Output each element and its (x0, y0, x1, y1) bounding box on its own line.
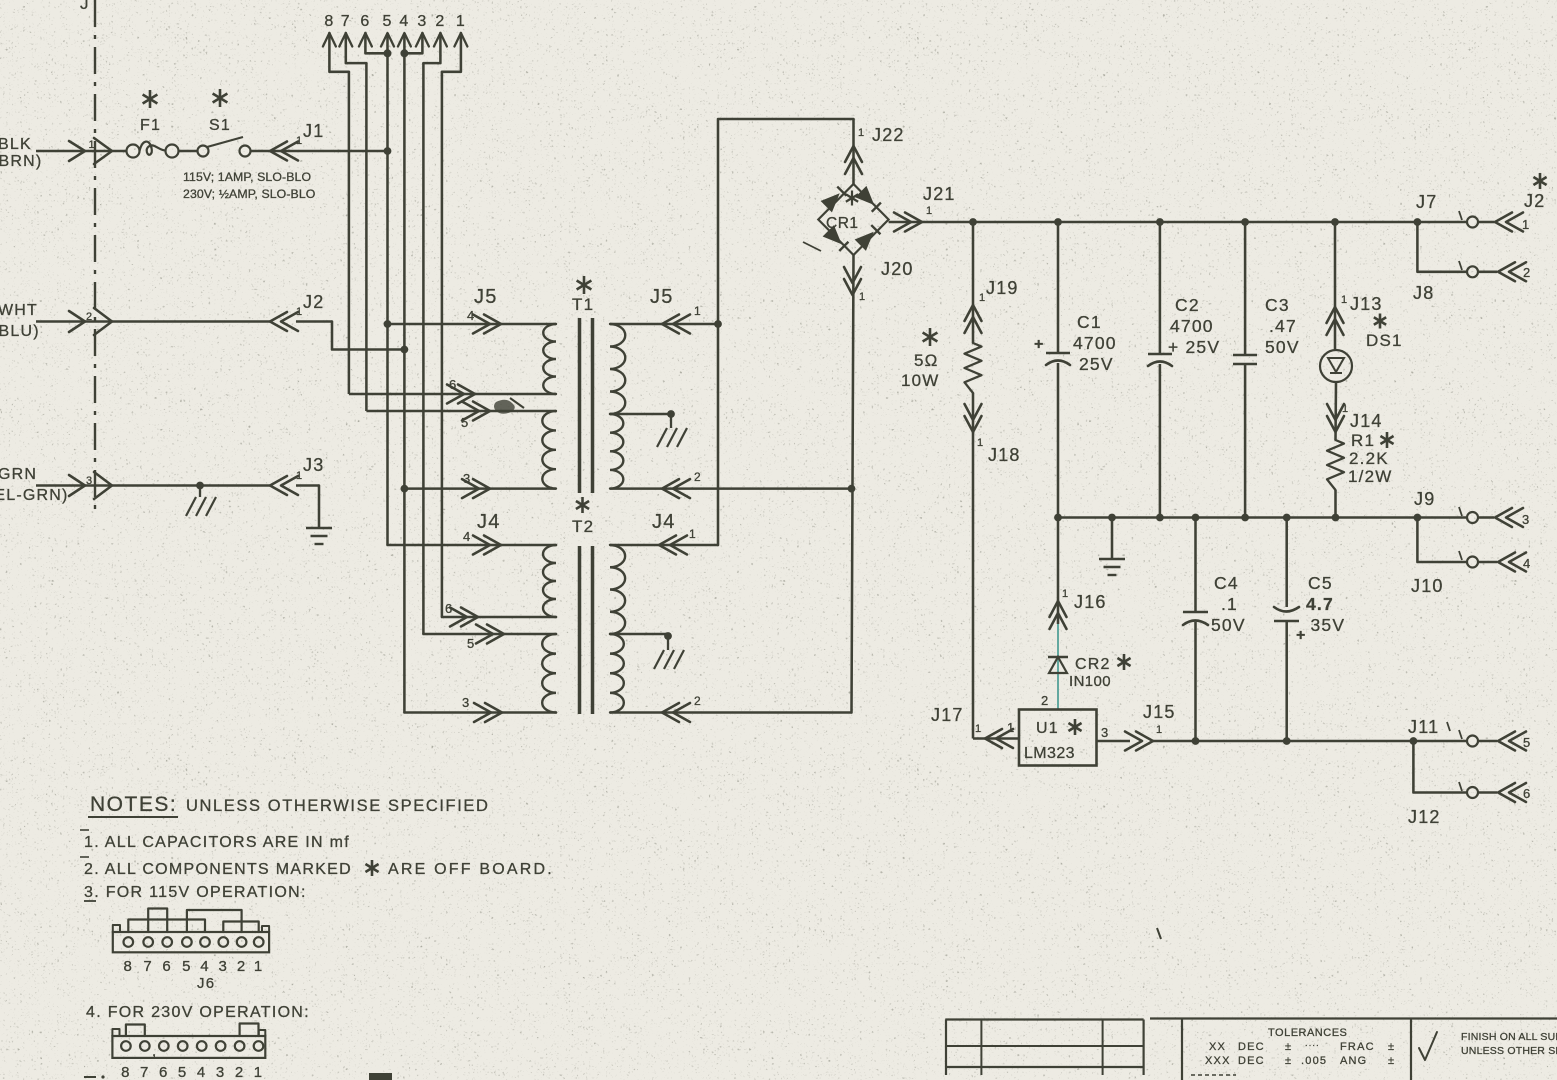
wire T2 primary pin 4 (388, 544, 557, 547)
svg-text:DEC: DEC (1238, 1041, 1265, 1053)
earth ground below J3 (306, 527, 332, 529)
svg-text:2: 2 (86, 311, 93, 323)
junction rail DS1 (1331, 218, 1339, 226)
junction T1 pin2 to bridge return (848, 485, 856, 493)
svg-text:1: 1 (975, 723, 982, 735)
arrow up pin 4 (398, 33, 411, 47)
J6 115V pin 2 circle (237, 937, 247, 947)
svg-text:J11: J11 (1408, 717, 1439, 737)
svg-text:T2: T2 (572, 517, 594, 536)
asterisk inside CR1 (851, 191, 853, 206)
svg-text:1: 1 (254, 958, 264, 975)
asterisk for 5 ohm resistor (929, 328, 932, 346)
svg-text:1: 1 (254, 1064, 264, 1080)
svg-text:....: .... (1305, 1038, 1320, 1048)
svg-text:5: 5 (467, 636, 475, 651)
junction rail C1 bottom (1054, 514, 1062, 522)
svg-text:1: 1 (456, 13, 466, 30)
svg-text:J12: J12 (1408, 807, 1441, 827)
svg-text:4: 4 (467, 308, 475, 323)
svg-text:J22: J22 (872, 125, 905, 145)
svg-text:J4: J4 (652, 511, 676, 533)
capacitor C4 top lead (1194, 518, 1197, 612)
svg-text:J6: J6 (197, 975, 215, 992)
capacitor C4 bottom lead (1194, 622, 1197, 741)
svg-text:1: 1 (977, 437, 984, 449)
stem pin 6 (365, 33, 387, 53)
chevron J15 (1125, 732, 1142, 751)
asterisk for T1 (583, 276, 586, 294)
wire T2 primary pin 3 (404, 711, 556, 714)
capacitor C4 plates (1183, 611, 1208, 614)
chassis ground T2 center tap (654, 650, 664, 669)
svg-text:1: 1 (694, 304, 702, 318)
svg-text:J7: J7 (1416, 192, 1437, 212)
J6 115V jumper 3-1 (223, 922, 258, 933)
junction rail C5 top (1283, 514, 1291, 522)
T1 secondary winding upper (610, 324, 625, 414)
stem pin 7 (346, 33, 367, 63)
J6 115V pin 7 circle (143, 937, 153, 947)
chevron T1 sec pin 1 (662, 315, 679, 334)
wire secondary pin1 bus up to bridge (718, 119, 854, 545)
bus wire from pins 5/6 (386, 33, 389, 545)
J6 230V jumper 2-1 (240, 1024, 259, 1037)
svg-text:C3: C3 (1265, 295, 1290, 315)
asterisk for DS1 (1379, 314, 1382, 329)
connector J2 chevron (270, 312, 287, 331)
diode CR2 (1048, 656, 1068, 658)
wire T1 secondary center tap (610, 413, 671, 416)
earth ground on common rail (1099, 558, 1125, 560)
tick above J10 contact (1459, 551, 1462, 560)
wire T2 secondary center tap (610, 633, 668, 636)
svg-text:50V: 50V (1265, 337, 1300, 357)
svg-text:F1: F1 (140, 117, 161, 134)
svg-text:R1: R1 (1351, 431, 1375, 450)
svg-text:3: 3 (219, 958, 229, 975)
svg-text:J14: J14 (1350, 411, 1383, 431)
svg-text:4: 4 (200, 958, 210, 975)
svg-text:±: ± (1388, 1055, 1395, 1067)
contact circle J12 (1467, 787, 1478, 798)
junction J2 to bus 4 (401, 346, 409, 354)
svg-text:J8: J8 (1413, 283, 1434, 303)
junction rail R1 bottom (1332, 514, 1340, 522)
chassis ground below GRN wire (199, 486, 201, 498)
svg-text:C2: C2 (1175, 295, 1200, 315)
junction pins 3-4 (400, 49, 408, 57)
wire GRN input (36, 484, 270, 487)
svg-text:XXX: XXX (1205, 1055, 1231, 1067)
svg-text:3: 3 (463, 471, 471, 486)
svg-text:U1: U1 (1036, 720, 1059, 737)
svg-text:7: 7 (140, 1064, 150, 1080)
chevron J10 pin 4 (1478, 561, 1497, 564)
svg-text:2: 2 (435, 13, 445, 30)
connector J6 115V body (113, 932, 269, 952)
J6 230V pin 2 circle (235, 1041, 245, 1051)
svg-text:J2: J2 (1524, 191, 1545, 211)
wire to J11 contact (1413, 740, 1466, 743)
svg-text:DEC: DEC (1238, 1055, 1265, 1067)
svg-text:5: 5 (1523, 735, 1531, 750)
tolerances lower dashes (1191, 1074, 1236, 1076)
arrow up pin 5 (381, 33, 394, 47)
junction rail C2 (1156, 218, 1164, 226)
svg-text:6: 6 (445, 601, 453, 616)
svg-text:3: 3 (462, 695, 470, 710)
wire ground stub (1111, 518, 1114, 559)
chassis ground T1 center tap (657, 428, 667, 447)
J6 115V jumper 8-4 (128, 920, 205, 933)
wire J19 branch upper (972, 222, 975, 343)
arrow up pin 3 (416, 33, 429, 47)
svg-text:J18: J18 (988, 445, 1021, 465)
junction bus4 T1 pin3 (401, 485, 409, 493)
chevron J9 pin 3 (1478, 516, 1494, 519)
wire bridge bottom return (852, 255, 854, 713)
J6 115V pin 4 circle (200, 937, 210, 947)
svg-text:J15: J15 (1143, 702, 1176, 722)
svg-text:J17: J17 (931, 705, 964, 725)
T1 core bars (578, 318, 582, 493)
chevron T1 sec pin 2 (662, 479, 679, 498)
svg-text:2.2K: 2.2K (1349, 449, 1389, 468)
chevron T2 sec pin 2 (662, 703, 679, 722)
wire T1 secondary pin 1 (610, 323, 718, 326)
T1 primary winding lower (542, 411, 556, 489)
svg-text:1: 1 (1156, 724, 1163, 736)
svg-text:8: 8 (121, 1064, 131, 1080)
svg-text:2: 2 (694, 470, 702, 484)
J6 230V pin 5 circle (178, 1041, 188, 1051)
wire bridge output J21 (889, 221, 973, 224)
capacitor C5 top lead (1285, 518, 1288, 608)
svg-text:(BRN): (BRN) (0, 153, 42, 170)
T2 secondary winding upper (610, 545, 625, 634)
resistor 5 ohm 10W (965, 343, 982, 393)
chevron J19 (965, 305, 982, 321)
stem pin 3 (404, 33, 422, 53)
svg-text:+: + (1296, 627, 1307, 644)
wire to J7 contact (1417, 221, 1466, 224)
junction bus5 T1 pin4 (384, 320, 392, 328)
svg-text:XX: XX (1209, 1041, 1226, 1053)
note 1 (80, 829, 89, 831)
chassis boundary dash-dot line (94, 0, 96, 516)
svg-text:ANG: ANG (1340, 1055, 1367, 1067)
svg-text:1: 1 (858, 127, 865, 139)
svg-text:1: 1 (1007, 720, 1015, 735)
asterisk for J2 (1539, 173, 1542, 189)
J6 230V jumper 8-7 (126, 1025, 145, 1037)
svg-text:CR2: CR2 (1075, 656, 1111, 673)
stem pin 2 (423, 33, 440, 63)
chevron T2 pin 3 (474, 703, 491, 722)
J6 115V right tab (262, 926, 269, 932)
svg-text:4.7: 4.7 (1306, 594, 1334, 614)
arrow up pin 2 (434, 33, 447, 47)
J6 115V jumper 7-6 (148, 909, 167, 933)
J6 230V left tab (112, 1029, 119, 1036)
svg-text:+: + (1034, 336, 1045, 353)
wire T2 secondary pin 2 (610, 711, 852, 714)
J6 115V pin 1 circle (254, 937, 264, 947)
chevron J21 (894, 213, 911, 232)
junction rail J7 (1414, 218, 1422, 226)
contact circle J11 (1467, 736, 1478, 747)
svg-text:6: 6 (162, 958, 172, 975)
J6 230V pin 4 circle (197, 1041, 207, 1051)
svg-text:35V: 35V (1311, 615, 1346, 635)
capacitor C5 plates (1274, 607, 1299, 612)
junction rail ground stub (1108, 514, 1116, 522)
svg-text:C4: C4 (1214, 573, 1239, 593)
J6 115V pin 6 circle (162, 937, 172, 947)
junction output C4 (1192, 737, 1200, 745)
svg-text:C1: C1 (1077, 312, 1102, 332)
bus wire from pin 7 (365, 63, 368, 411)
svg-text:3: 3 (216, 1064, 226, 1080)
title block top border (1150, 1017, 1557, 1019)
wire drop to J10 (1417, 518, 1466, 563)
arrow up pin 8 (323, 33, 336, 47)
wire C1 bottom to J16 (teal trace) (1057, 624, 1059, 710)
wire common rail (1058, 516, 1417, 519)
svg-text:2: 2 (1523, 265, 1531, 280)
svg-text:J3: J3 (303, 455, 324, 475)
contact circle J9 (1467, 512, 1478, 523)
chevron J17 (985, 729, 1002, 748)
svg-text:C5: C5 (1308, 573, 1333, 593)
svg-text:GRN: GRN (0, 466, 37, 483)
junction rail C4 top (1192, 514, 1200, 522)
wire T2 primary pin 5 (423, 633, 556, 636)
svg-text:5: 5 (182, 958, 192, 975)
svg-text:T1: T1 (572, 295, 594, 314)
svg-text:J5: J5 (474, 286, 498, 308)
note 2 (80, 856, 89, 858)
svg-text:WHT: WHT (0, 302, 38, 319)
diode CR1-D (bottom to right) (855, 232, 874, 251)
op-amp U1 regulator box (1019, 710, 1097, 766)
bus wire from pin 2 (422, 63, 425, 634)
ink smudge near T1 pin 5 (494, 400, 515, 414)
stem pin 8 (329, 33, 349, 72)
svg-text:3: 3 (417, 13, 427, 30)
junction output J11 (1410, 737, 1418, 745)
wire to J9 contact (1417, 516, 1466, 519)
capacitor C1 top lead (1057, 222, 1060, 352)
connector J20 chevron (844, 279, 861, 295)
J6 230V pin 7 circle (140, 1041, 150, 1051)
svg-text:3: 3 (1522, 512, 1530, 527)
chevron J18 (965, 416, 982, 432)
wire J13 branch (1334, 222, 1337, 350)
diode CR1-A (left to top) (821, 193, 840, 212)
svg-text:S1: S1 (209, 117, 231, 134)
chevron J14 (1327, 416, 1344, 432)
diode CR1-B (top to right) (855, 186, 874, 205)
wire T1 primary pin 5 (366, 410, 556, 413)
svg-text:J19: J19 (986, 278, 1019, 298)
svg-text:5: 5 (178, 1064, 188, 1080)
capacitor C5 bottom lead (1285, 621, 1288, 741)
svg-text:±: ± (1285, 1041, 1292, 1053)
junction rail J19 (969, 218, 977, 226)
wire drop to J8 (1417, 222, 1466, 272)
T2 secondary winding lower (610, 634, 624, 713)
junction rail C1 (1054, 218, 1062, 226)
arrow pin 1 at boundary (69, 141, 85, 161)
svg-text:FRAC: FRAC (1340, 1041, 1375, 1053)
stray pencil mark below bridge (803, 242, 821, 251)
junction T1 center tap (667, 410, 675, 418)
chevron T1 pin 6 (447, 385, 464, 404)
wire BLK input (36, 150, 126, 153)
J6 115V jumper 5-2 (187, 910, 242, 932)
title block revision table (945, 1018, 1143, 1020)
chevron T1 pin 3 (462, 479, 479, 498)
svg-text:4: 4 (463, 529, 471, 544)
svg-text:(YEL-GRN): (YEL-GRN) (0, 487, 69, 504)
J6 230V pin 8 circle (121, 1041, 131, 1051)
chevron J8 pin 2 (1498, 262, 1515, 281)
bridge rectifier CR1 diamond (818, 184, 888, 255)
svg-text:J: J (80, 0, 90, 13)
wire J17 to U1 pin 1 (973, 737, 1019, 740)
tick above J12 contact (1459, 782, 1462, 791)
wire J7 circle to chevron (1478, 221, 1494, 224)
svg-text:1. ALL CAPACITORS ARE IN mf: 1. ALL CAPACITORS ARE IN mf (84, 834, 350, 851)
stem pin 1 (442, 33, 461, 72)
switch S1 (198, 146, 209, 157)
junction rail C2 bottom (1156, 514, 1164, 522)
svg-text:6: 6 (159, 1064, 169, 1080)
svg-text:8: 8 (324, 13, 334, 30)
svg-text:+ 25V: + 25V (1168, 337, 1220, 357)
connector J22 chevron (845, 146, 862, 162)
J6 230V pin 1 circle (254, 1041, 264, 1051)
svg-text:.1: .1 (1221, 594, 1238, 614)
stray tick mark (1157, 928, 1161, 939)
svg-text:6: 6 (1523, 786, 1531, 801)
capacitor C3 plates (1233, 354, 1257, 357)
tick above J8 contact (1459, 261, 1462, 270)
svg-text:FINISH ON ALL SURF: FINISH ON ALL SURF (1461, 1031, 1557, 1043)
wire J2 step down to bus 4 (332, 322, 404, 350)
svg-text:1: 1 (1522, 217, 1530, 232)
svg-text:UNLESS OTHER SPE: UNLESS OTHER SPE (1461, 1045, 1557, 1057)
wire R1 to bottom rail (1334, 490, 1337, 518)
svg-text:UNLESS OTHERWISE SPECIFIED: UNLESS OTHERWISE SPECIFIED (186, 797, 490, 815)
svg-text:1: 1 (89, 139, 96, 151)
svg-text:10W: 10W (901, 371, 940, 390)
wire J18 branch lower (972, 393, 975, 739)
svg-text:J21: J21 (923, 184, 956, 204)
J6 115V left tab (113, 925, 120, 932)
svg-text:1: 1 (926, 205, 933, 217)
svg-text:230V; ½AMP, SLO-BLO: 230V; ½AMP, SLO-BLO (183, 187, 315, 201)
chevron J16 (1050, 601, 1067, 617)
wire T2 primary pin 6 (442, 616, 556, 619)
svg-text:NOTES:: NOTES: (90, 793, 177, 816)
svg-text:,: , (152, 1043, 157, 1060)
capacitor C2 bottom lead (1159, 364, 1162, 518)
wire T1 secondary pin 2 (610, 487, 852, 490)
svg-text:1: 1 (1062, 588, 1069, 600)
svg-text:1: 1 (1342, 403, 1349, 415)
svg-text:3: 3 (86, 475, 93, 487)
junction pins 6-5 (384, 49, 392, 57)
wire U1 pin3 output (1097, 740, 1131, 743)
tick above J7 contact (1459, 211, 1462, 220)
asterisk for F1 (149, 90, 152, 108)
svg-text:115V; 1AMP, SLO-BLO: 115V; 1AMP, SLO-BLO (183, 170, 311, 184)
svg-text:1: 1 (689, 527, 697, 541)
T1 secondary winding lower (610, 414, 623, 489)
J6 230V pin 3 circle (216, 1041, 226, 1051)
arrow up pin 6 (359, 33, 372, 47)
svg-text:3. FOR 115V OPERATION:: 3. FOR 115V OPERATION: (84, 884, 307, 901)
J6 230V pin 6 circle (159, 1041, 169, 1051)
T2 primary winding lower (542, 634, 556, 713)
svg-text:2: 2 (235, 1064, 245, 1080)
arrow up pin 1 (454, 33, 467, 47)
wire T1 primary pin 3 (404, 487, 556, 490)
svg-text:BLK: BLK (0, 136, 32, 153)
svg-text:LM323: LM323 (1024, 745, 1075, 762)
svg-text:7: 7 (143, 958, 153, 975)
svg-text:5: 5 (382, 13, 392, 30)
J6 230V right tab (259, 1030, 266, 1036)
svg-text:1: 1 (1341, 294, 1348, 306)
svg-text:J10: J10 (1411, 576, 1444, 596)
svg-text:J16: J16 (1074, 592, 1107, 612)
wire output rail (1153, 740, 1413, 743)
chevron T2 sec pin 1 (659, 536, 676, 555)
svg-text:.47: .47 (1269, 316, 1297, 336)
junction at chassis ground tap (196, 482, 204, 490)
tick above J11 contact (1459, 730, 1462, 739)
svg-text:J1: J1 (303, 121, 324, 141)
svg-text:50V: 50V (1211, 615, 1246, 635)
contact circle J7 (1467, 217, 1478, 228)
wire bridge top feed (852, 119, 855, 184)
svg-text:4. FOR 230V OPERATION:: 4. FOR 230V OPERATION: (86, 1004, 310, 1021)
partial label J6 bottom edge (369, 1073, 392, 1080)
capacitor C3 top lead (1244, 222, 1247, 354)
wire DS1 to J14 (1334, 382, 1337, 440)
chevron T2 pin 5 (476, 625, 493, 644)
junction T2 center tap (664, 632, 672, 640)
arrow pin 3 at boundary (69, 475, 85, 496)
chevron J13 (1327, 307, 1344, 323)
wire T2 secondary pin 1 (610, 544, 718, 547)
svg-text:6: 6 (360, 13, 370, 30)
svg-text:J9: J9 (1414, 489, 1435, 509)
wire WHT input (36, 320, 270, 323)
J6 115V pin 5 circle (182, 937, 192, 947)
bus wire from pins 4/3 (403, 33, 406, 713)
chevron J12 pin 6 (1478, 791, 1497, 794)
wire DC positive rail (973, 221, 1417, 224)
J6 115V pin 8 circle (124, 937, 134, 947)
junction rail J9 (1414, 514, 1422, 522)
capacitor C2 plates (1148, 353, 1172, 356)
chevron T2 pin 4 (473, 536, 490, 555)
